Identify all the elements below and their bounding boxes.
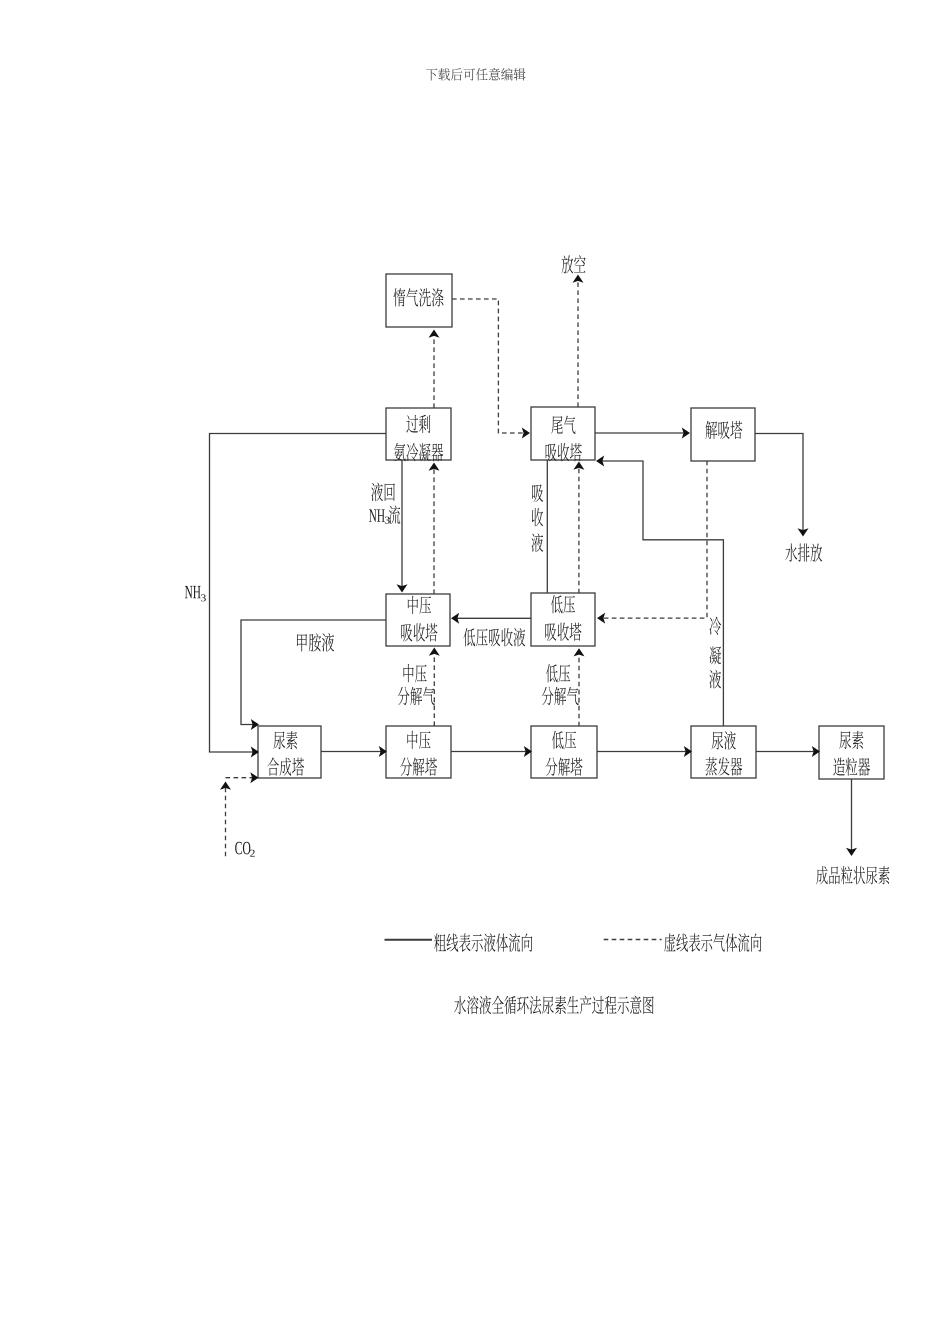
box 尿素合成塔 xyxy=(258,726,321,778)
arrowhead water down xyxy=(798,528,809,536)
arrowhead into 尿素合成塔 bottom-left xyxy=(250,772,258,783)
dashed wire I top -> F bottom 低压分解气 xyxy=(578,651,580,726)
wire 甲胺液 E->G xyxy=(241,620,386,725)
arrowhead product down xyxy=(846,848,857,856)
caption 水溶液全循环法尿素生产过程示意图 xyxy=(454,996,466,1014)
label 水排放 xyxy=(785,544,797,562)
label NH3流 xyxy=(369,509,377,521)
dashed wire F top -> C bottom xyxy=(578,465,580,594)
dashed wire B top -> A bottom xyxy=(433,333,435,409)
wire I->J xyxy=(597,751,689,753)
box 低压吸收塔 xyxy=(531,593,595,646)
wire C bottom to F top xyxy=(546,460,548,594)
arrowhead into 尿液蒸发器 xyxy=(684,746,692,757)
box 过剩氨冷凝器 xyxy=(386,408,451,461)
wire C->D xyxy=(595,432,687,434)
dashed wire D bottom -> F right 冷凝液 xyxy=(601,461,708,618)
arrowhead into 中压吸收塔 top xyxy=(397,584,408,592)
dashed wire E top -> B bottom xyxy=(433,466,435,595)
legend dashed line xyxy=(604,939,662,941)
arrowhead into 低压吸收塔 right xyxy=(597,613,605,624)
box 中压分解塔 xyxy=(386,726,451,778)
dashed wire CO2 horizontal into G xyxy=(226,777,256,779)
wire J top up to 尾气吸收塔 xyxy=(600,461,724,726)
arrowhead into 中压吸收塔 bottom xyxy=(429,648,440,656)
arrowhead into 尿素合成塔 top-left xyxy=(251,719,259,730)
wire NH3 feed B->G xyxy=(210,434,387,753)
box 尾气吸收塔 xyxy=(531,407,595,461)
arrowhead into 尾气吸收塔 bottom xyxy=(573,462,584,470)
legend solid text 粗线表示液体流向 xyxy=(434,933,446,951)
dashed wire C top -> 放空 xyxy=(577,278,579,408)
wire G->H xyxy=(321,751,384,753)
wire B bottom to E top xyxy=(401,460,403,589)
arrowhead into 尾气吸收塔 right xyxy=(596,456,604,467)
label 放空 xyxy=(562,255,574,273)
legend dashed text 虚线表示气体流向 xyxy=(664,933,675,951)
wire J->K xyxy=(756,751,817,753)
dashed wire CO2 vertical xyxy=(225,785,227,857)
dashed wire H top -> E bottom 中压分解气 xyxy=(433,651,435,727)
arrowhead into 惰气洗涤 bottom xyxy=(429,330,440,338)
label 低压分解气 xyxy=(546,664,558,682)
dashed wire A -> C xyxy=(452,299,527,433)
page title 下载后可任意编辑 xyxy=(426,68,438,80)
arrowhead CO2 up xyxy=(220,782,231,790)
arrowhead into 中压吸收塔 right xyxy=(451,613,459,624)
label NH3 xyxy=(185,586,193,598)
arrowhead into 尾气吸收塔 left xyxy=(522,428,530,439)
box 尿液蒸发器 xyxy=(691,726,756,778)
box 惰气洗涤 xyxy=(386,274,452,327)
wire F->E 低压吸收液 xyxy=(455,617,532,619)
wire K down to product xyxy=(851,779,853,853)
arrowhead into 解吸塔 xyxy=(682,428,690,439)
label 成品粒状尿素 xyxy=(816,866,827,884)
label 冷凝液 vertical xyxy=(709,617,721,635)
label 中压分解气 xyxy=(403,664,413,682)
arrowhead into 中压分解塔 xyxy=(379,746,387,757)
label 低压吸收液 xyxy=(464,628,476,646)
arrowhead into 过剩氨冷凝器 bottom xyxy=(429,463,440,471)
box 低压分解塔 xyxy=(531,726,597,778)
arrowhead into 低压分解塔 xyxy=(524,746,532,757)
wire D right down to water discharge xyxy=(755,434,803,534)
label 吸收液 vertical xyxy=(532,484,543,502)
label CO2 xyxy=(235,842,242,855)
arrowhead into 低压吸收塔 bottom xyxy=(574,648,585,656)
label 液回 xyxy=(371,483,383,502)
arrowhead 放空 up xyxy=(573,275,584,283)
box 尿素造粒器 xyxy=(819,726,884,779)
wire H->I xyxy=(451,751,529,753)
arrowhead into 尿素造粒器 xyxy=(812,746,820,757)
label 甲胺液 xyxy=(297,634,307,652)
box 解吸塔 xyxy=(691,408,755,461)
arrowhead into 尿素合成塔 left xyxy=(251,747,259,758)
legend solid line xyxy=(385,939,433,941)
box 中压吸收塔 xyxy=(386,594,450,646)
